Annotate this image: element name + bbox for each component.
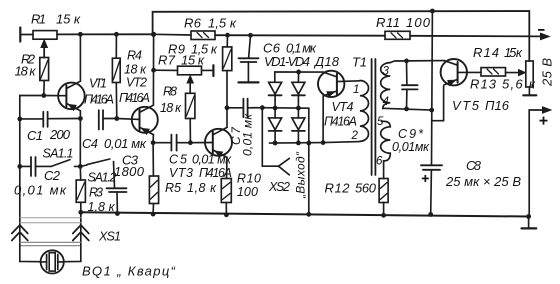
node: rail junction at C6	[248, 33, 253, 38]
node: VT1 emitter / C1 / C4 junction	[78, 116, 83, 121]
label SA1.1	[43, 147, 74, 161]
wire: bias rail y=34.4 from R1 to VT2 collector column	[57, 33, 154, 35]
svg-text:5,6 к: 5,6 к	[502, 77, 536, 92]
node: bridge bottom right junction	[296, 141, 301, 146]
node: rail junction at R9	[225, 33, 230, 38]
transistor VT5 П16	[441, 59, 481, 86]
svg-text:Т1: Т1	[352, 55, 367, 70]
wire: plus supply terminal with arrow	[529, 107, 551, 217]
label XS1	[98, 230, 121, 244]
label C7 0,01 мк (rotated)	[229, 113, 255, 156]
svg-text:R6: R6	[184, 16, 202, 31]
svg-text:R10: R10	[237, 172, 261, 186]
node: bridge middle right junction	[296, 106, 301, 111]
node: VT4 emitter junction	[321, 140, 326, 145]
node: bottom rail junction at plus terminal	[526, 214, 531, 219]
label C3 1800	[114, 153, 145, 180]
label R2 18 к	[15, 52, 37, 79]
svg-text:R14: R14	[473, 45, 499, 60]
resistor R11 100	[385, 31, 541, 39]
label minus sign	[538, 29, 545, 31]
wire: VT3 collector up	[226, 108, 228, 128]
wire: bridge middle wire	[262, 108, 309, 144]
svg-text:BQ1 „ Кварц“: BQ1 „ Кварц“	[82, 264, 176, 279]
label VT1 П416А	[84, 77, 114, 107]
capacitor C4 0,01mk	[99, 110, 117, 129]
svg-text:С9*: С9*	[398, 127, 424, 141]
label C2 0,01 мк	[14, 168, 67, 198]
transformer T1 secondary winding 5-6	[381, 121, 391, 166]
wire: VT2 emitter down	[152, 135, 154, 143]
svg-text:„Выход“: „Выход“	[294, 151, 308, 199]
wire: left input terminal bar	[20, 28, 33, 42]
svg-text:2: 2	[351, 130, 359, 142]
wire: VT4 emitter down	[322, 96, 324, 143]
transistor VT1 П416А	[58, 81, 85, 111]
svg-text:3: 3	[383, 66, 390, 78]
svg-text:XS1: XS1	[98, 230, 121, 244]
svg-text:6: 6	[376, 156, 383, 168]
label C5 0,01 мк	[169, 153, 232, 167]
svg-text:1,8 к: 1,8 к	[187, 181, 217, 195]
svg-text:4: 4	[383, 96, 389, 108]
wire: VT2 collector up to rail	[152, 34, 154, 105]
wire: VT3 emitter down	[226, 157, 229, 178]
switch SA1.2	[80, 159, 114, 188]
wire: vertical from VT1 emitter node down to R3	[79, 119, 81, 181]
label VT2 П416А	[119, 76, 150, 106]
node: pin 4 wire / supply line junction	[429, 108, 434, 113]
svg-text:С4: С4	[82, 136, 98, 151]
transistor VT2 П416А	[132, 105, 158, 134]
label VT5 П16	[452, 98, 510, 113]
resistor R12 560	[379, 167, 388, 216]
wire: minus supply arrow terminal	[541, 33, 550, 40]
label R10 100	[237, 172, 261, 200]
label pin 1	[353, 84, 359, 96]
transistor VT4 П416А	[318, 71, 360, 97]
wire: bottom right end terminal bar	[522, 217, 537, 229]
transformer T1 primary winding 1-2	[360, 81, 369, 142]
node: C7 / XS2 junction	[260, 105, 265, 110]
svg-text:1,5 к: 1,5 к	[208, 16, 237, 31]
svg-text:П416А: П416А	[84, 93, 114, 107]
node: C9 top junction	[404, 59, 409, 64]
svg-text:Д18: Д18	[313, 54, 340, 69]
svg-text:R1: R1	[31, 12, 46, 27]
label R5 1,8 к	[165, 181, 217, 195]
svg-text:25 мк × 25 В: 25 мк × 25 В	[445, 174, 521, 189]
svg-text:18 к: 18 к	[124, 63, 147, 77]
svg-text:VT5: VT5	[452, 98, 480, 113]
node: bridge top junction	[296, 70, 301, 75]
svg-text:С5: С5	[169, 153, 187, 167]
label XS2	[268, 180, 290, 194]
resistor R13 5,6k	[481, 68, 520, 76]
label R7 15 к	[158, 53, 205, 68]
svg-text:SA1.2: SA1.2	[88, 171, 117, 185]
wire: bottom rail	[81, 212, 529, 216]
svg-text:100: 100	[406, 15, 431, 30]
resistor R1 (potentiometer 15k)	[33, 31, 57, 58]
label BQ1 „Кварц"	[82, 264, 176, 279]
resistor R6 1,5k	[154, 31, 385, 40]
capacitor C5 0,01mk	[153, 135, 190, 151]
label R13 5,6 к	[470, 77, 536, 92]
label C1 200	[27, 127, 71, 143]
svg-text:18 к: 18 к	[15, 64, 37, 79]
label pin 5	[377, 116, 384, 128]
wire: pin 3 wire to VT5 collector	[390, 61, 444, 63]
capacitor C1 200	[20, 112, 81, 127]
label R11 100	[376, 15, 431, 30]
svg-text:R8: R8	[163, 85, 177, 99]
label plus sign at C8	[422, 175, 429, 182]
node: bottom rail junction at C8	[428, 212, 433, 217]
node: bridge bottom left junction	[273, 141, 278, 146]
label C8 25 мк x 25 В	[445, 158, 521, 189]
resistor R4 18k	[112, 34, 120, 118]
svg-text:15 к: 15 к	[56, 12, 81, 27]
node: rail junction at R4	[114, 32, 119, 37]
label R3 1,8 к	[88, 186, 116, 215]
wire: VT2 base wire	[117, 118, 140, 121]
capacitor C6 0,1mk	[239, 35, 259, 82]
label pin 4	[383, 96, 389, 108]
node: R7 left junction on VT2 collector line	[151, 68, 156, 73]
node: left line junction at C2 wire	[17, 164, 22, 169]
label „Выход" (rotated)	[294, 151, 308, 199]
svg-text:25 В: 25 В	[540, 58, 555, 87]
wire: VT3 base wire	[190, 142, 212, 144]
svg-text:VT2: VT2	[126, 76, 147, 90]
node: rail junction at VT1 collector	[78, 32, 83, 37]
svg-text:0,01 мк: 0,01 мк	[241, 113, 255, 156]
node: rail junction at x=153.6	[151, 32, 156, 37]
label R4 18 к	[124, 49, 147, 77]
label plus sign at terminal	[540, 117, 548, 125]
capacitor C9* 0,01mk	[402, 61, 418, 109]
svg-text:П416А: П416А	[119, 91, 150, 105]
svg-text:R11: R11	[376, 15, 400, 30]
node: VT2 base / R4 junction	[114, 116, 119, 121]
label VD1-VD4 Д18	[264, 54, 340, 69]
capacitor C2 0,01mk	[20, 157, 52, 176]
label R12 560	[325, 181, 377, 196]
label VT3 П416А	[169, 166, 232, 180]
wire: bridge bottom wire to VT4 emitter and T1 pin 2	[270, 142, 360, 144]
svg-text:1: 1	[353, 84, 359, 96]
wire: VT1 collector up to rail	[79, 34, 81, 81]
label C4 0,01 мк	[82, 136, 147, 151]
diode VD1 (top left, Д18)	[269, 82, 282, 108]
svg-text:R7: R7	[158, 53, 176, 68]
diode VD4 (bottom right, Д18)	[292, 108, 305, 143]
node: VT1 base junction	[41, 93, 46, 98]
node: bottom rail junction at R12	[381, 213, 386, 218]
svg-text:XS2: XS2	[268, 180, 290, 194]
svg-text:С1: С1	[27, 128, 43, 143]
label R9 1,5 к	[168, 42, 218, 57]
resistor R3 1,8k	[76, 180, 85, 212]
label pin 6	[376, 156, 383, 168]
wire: bridge top wire	[275, 72, 323, 82]
node: VT2 emitter / C5 junction	[151, 140, 156, 145]
label SA1.2	[88, 171, 117, 185]
resistor R2 18k	[40, 45, 49, 96]
svg-text:SA1.1: SA1.1	[43, 147, 74, 161]
label R1 15 к	[31, 12, 81, 27]
transformer T1 core	[372, 59, 376, 175]
svg-text:R13: R13	[470, 77, 497, 92]
connector XS1 pin 2 (right, with chevrons)	[73, 212, 89, 243]
crystal BQ1 "Кварц"	[20, 244, 81, 274]
svg-text:5: 5	[377, 116, 384, 128]
diode VD2 (top right, Д18)	[292, 82, 305, 108]
node: XS2 line / bottom wire junction	[306, 141, 311, 146]
transistor VT3 П416А	[205, 127, 232, 157]
node: top rail junction at x=432.5	[430, 9, 435, 14]
svg-text:VD1-VD4: VD1-VD4	[264, 54, 310, 69]
wire: VT5 emitter branch	[432, 86, 444, 121]
label pin 3	[383, 66, 390, 78]
wire: pin 4 wire	[383, 108, 432, 110]
svg-text:R4: R4	[127, 49, 142, 63]
wire: XS2 line down to bottom rail	[308, 143, 310, 214]
svg-text:1800: 1800	[114, 164, 145, 179]
capacitor C7 0,01mk	[227, 99, 262, 118]
label VT4 П416А	[324, 100, 357, 129]
svg-text:0,01 мк: 0,01 мк	[104, 136, 147, 151]
node: bottom rail junction at C3	[115, 211, 120, 216]
node: SA1 common junction	[78, 164, 83, 169]
label R6 1,5 к	[184, 16, 237, 31]
label R8 18 к	[160, 85, 182, 116]
resistor R7 (potentiometer 15k)	[154, 65, 214, 93]
wire: main supply vertical line x=432	[431, 11, 433, 215]
diode VD3 (bottom left, Д18)	[269, 108, 282, 143]
svg-text:18 к: 18 к	[160, 101, 182, 115]
wire: right column top stem	[297, 72, 299, 82]
svg-text:R5: R5	[165, 181, 181, 195]
node: bottom rail junction at R10	[224, 212, 229, 217]
label C6 0,1 мк	[263, 41, 317, 56]
resistor R10 100	[221, 179, 231, 215]
resistor R8 18k	[186, 93, 195, 142]
node: bottom rail junction at XS2 line	[306, 212, 311, 217]
connector XS1 pin 1 (left, with chevrons)	[12, 225, 28, 241]
svg-text:VT1: VT1	[89, 77, 107, 91]
svg-text:R3: R3	[89, 186, 103, 200]
svg-text:П416А: П416А	[324, 115, 357, 129]
svg-text:VT3: VT3	[169, 166, 193, 180]
node: left line junction at C1 wire	[17, 117, 22, 122]
node: bridge middle left junction	[273, 106, 278, 111]
wire: XS2 drop wire	[262, 108, 278, 167]
svg-text:R12: R12	[325, 181, 351, 196]
svg-text:П16: П16	[485, 98, 510, 113]
svg-text:15 к: 15 к	[504, 45, 523, 60]
node: VT3 base junction	[188, 140, 193, 145]
label 25 В (rotated)	[540, 58, 555, 87]
svg-text:200: 200	[49, 127, 71, 142]
svg-text:100: 100	[237, 185, 258, 199]
svg-text:С2: С2	[44, 168, 61, 183]
svg-text:0,01мк: 0,01мк	[392, 140, 430, 154]
svg-text:15 к: 15 к	[181, 53, 205, 68]
node: bottom rail junction at R5	[151, 212, 156, 217]
wire: VT1 base wire and left vertical line	[20, 96, 67, 244]
resistor R14 (potentiometer, vertical) with wiper arrow	[519, 61, 537, 95]
connector XS2 fork	[279, 158, 290, 175]
node: bottom rail start / R3 junction	[78, 210, 83, 215]
label C9* 0,01 мк	[392, 127, 430, 154]
connector XS1 socket strip lines	[20, 218, 81, 223]
svg-text:560: 560	[355, 181, 377, 196]
svg-text:0,01 мк: 0,01 мк	[14, 183, 67, 198]
wire: top supply rail y=11	[153, 11, 530, 61]
capacitor C3 1800	[107, 188, 127, 213]
resistor R9 1,5k (vertical)	[223, 35, 232, 108]
capacitor C8 25mk electrolytic	[421, 165, 442, 170]
label T1	[352, 55, 367, 70]
node: C9 bottom junction	[404, 107, 409, 112]
svg-text:С8: С8	[466, 158, 482, 173]
svg-text:VT4: VT4	[332, 100, 354, 114]
wire: VT1 emitter down	[79, 111, 81, 119]
switch SA1.1	[51, 160, 80, 167]
node: R9 / C7 / VT3 collector junction	[225, 105, 230, 110]
label R14 15 к	[473, 45, 523, 60]
label pin 2	[351, 130, 359, 142]
transformer T1 secondary winding 3-4	[381, 63, 391, 109]
resistor R5 1,8k	[149, 143, 158, 214]
